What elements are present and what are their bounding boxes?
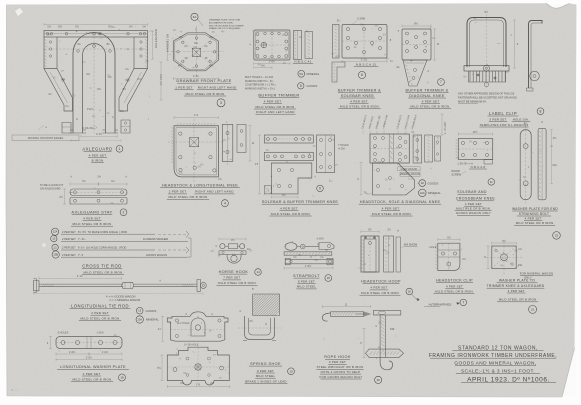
solebar and buffer trimmer knee label (317, 185, 324, 192)
spring shoe lower plate (167, 347, 229, 385)
balloons 10 goods / 10A mineral (419, 180, 426, 187)
alternatives note with arrows to balloons 16 and 7 (412, 294, 419, 301)
schedule right end hooks (186, 231, 189, 253)
solebar and buffer trimmer knee (9) drawing (255, 135, 349, 199)
headstock sole and diagonal knee (10/10A) drawing (357, 114, 440, 195)
label clip side view (529, 21, 543, 89)
label clip (8) drawing - front frame (464, 10, 542, 91)
buffer trimmer and diagonal knee (7) drawing (396, 22, 440, 87)
headstock hoop (16) drawing (361, 227, 400, 272)
balloon 3A with note (191, 13, 198, 20)
rope hook (20) drawing - horizontal hook (322, 302, 403, 370)
tie rod schedule lines with balloons 12A 13 12 13B (52, 228, 59, 235)
solebar and crossbeam knee (11) drawing (456, 130, 493, 164)
scattered tiny dimension scribbles (pencil texture) (45, 18, 541, 380)
buffer trimmer and solebar knee (6) drawing (332, 18, 392, 83)
balloon 5A mineral / 5 goods (298, 70, 305, 77)
drawbar front plate (3) - octagonal plate (166, 26, 225, 80)
washer plate to trimmer knee and axleguard (21) drawing (484, 239, 522, 275)
axleguard stay (2) drawing - two stacked bars (59, 175, 128, 205)
paper specks (15, 8, 23, 16)
headstock clip (17) drawing (429, 235, 466, 270)
axleguard (1) drawing - large W-shaped bracket top-left (12, 23, 163, 142)
rope hook vertical view with cross arm (373, 311, 401, 315)
buffer trimmer (5/5A) drawing (254, 30, 313, 69)
longitudinal washer plate (18) drawing (47, 331, 122, 362)
balloons 13 goods / 13A mineral (136, 307, 143, 314)
strapbolt (15) drawing (284, 237, 334, 270)
notes block for buffer trimmer (245, 76, 276, 90)
headstock and longitudinal knee (4) drawing (168, 113, 255, 182)
channel strap below wall section (245, 316, 275, 340)
washer plate for end straining bolt (22) drawing - two tall strips (520, 120, 558, 203)
vertical dimension column right of knee 7 (441, 114, 443, 135)
horse hook (14) drawing (215, 238, 251, 264)
corner bracket with hatched wall section (238, 294, 281, 341)
spring shoe (19) drawing - upper plate (157, 312, 229, 388)
label clip note text (458, 92, 517, 104)
tie rod drawing with turnbuckle and eye end (34, 274, 207, 295)
